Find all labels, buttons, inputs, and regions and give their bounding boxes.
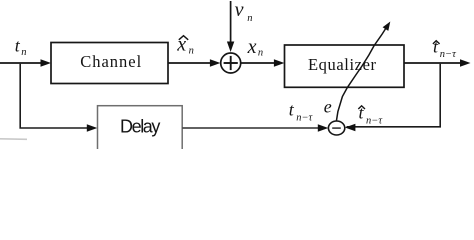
arrowhead into Channel	[41, 59, 52, 66]
svg-text:t: t	[289, 100, 295, 120]
arrowhead into S2 from right	[345, 124, 356, 131]
arrowhead into sum top	[227, 42, 234, 53]
svg-text:x: x	[247, 36, 257, 58]
svg-text:v: v	[235, 0, 244, 21]
svg-text:n−τ: n−τ	[440, 49, 457, 60]
block Delay	[98, 106, 183, 152]
svg-text:e: e	[324, 97, 332, 117]
scan artifact gray line bottom left	[0, 138, 27, 141]
svg-text:Channel: Channel	[80, 52, 142, 71]
wire input t_n	[0, 62, 44, 64]
feedback wire right side	[347, 64, 441, 127]
noise input v_n wire	[230, 1, 232, 43]
svg-text:n−τ: n−τ	[296, 112, 313, 123]
svg-text:n: n	[247, 13, 252, 24]
svg-text:n: n	[189, 46, 194, 57]
wire delay to S2	[182, 127, 320, 129]
adaptation arrow through Equalizer	[336, 27, 387, 122]
svg-text:Delay: Delay	[120, 117, 160, 137]
svg-text:t: t	[433, 37, 439, 57]
arrowhead into S2 from left	[318, 124, 329, 131]
svg-text:n: n	[258, 48, 263, 59]
svg-text:n−τ: n−τ	[366, 116, 383, 127]
svg-text:t: t	[15, 36, 21, 56]
wire branch down-left	[20, 64, 88, 128]
arrowhead into Equalizer	[274, 59, 285, 66]
wire channel to sum	[168, 62, 213, 64]
svg-text:n: n	[21, 47, 26, 58]
wire sum to equalizer	[241, 62, 277, 64]
arrowhead output	[460, 59, 471, 66]
summing junction S2 minus circle	[328, 121, 344, 135]
wire equalizer to output	[404, 62, 463, 64]
block Channel	[51, 43, 168, 84]
arrowhead into Delay	[87, 124, 98, 131]
block Equalizer	[285, 45, 405, 87]
summing junction S1 plus circle	[221, 53, 241, 73]
arrowhead into sum junction	[210, 59, 221, 66]
